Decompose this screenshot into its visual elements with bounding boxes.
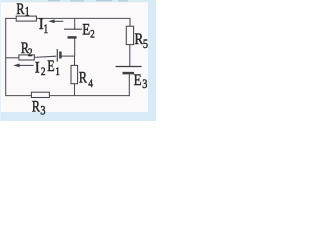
wire bottom: left corner to R3 <box>6 95 32 97</box>
blue margin bottom <box>0 112 156 121</box>
wire middle row: left wire to R2 <box>6 57 19 59</box>
wire middle branch: R4 to bottom wire <box>74 84 76 96</box>
current arrow I2 <box>13 64 33 68</box>
resistor R2 <box>19 55 34 60</box>
battery E1 <box>57 49 60 62</box>
wire right: E3 to bottom corner <box>128 74 130 96</box>
svg-text:1: 1 <box>55 66 60 78</box>
svg-text:1: 1 <box>25 5 30 18</box>
svg-text:I: I <box>35 60 40 76</box>
resistor R3 <box>31 92 49 97</box>
svg-text:4: 4 <box>88 78 93 90</box>
wire middle branch: E2 to node A <box>74 38 76 56</box>
blue margin right <box>148 0 156 121</box>
resistor R1 <box>16 16 36 21</box>
wire right: top corner down to R5 <box>129 18 131 26</box>
label R2 <box>21 40 33 59</box>
svg-text:E: E <box>82 21 90 38</box>
wire top: left corner to R1 <box>6 17 17 19</box>
svg-text:1: 1 <box>43 23 48 36</box>
label E3 <box>134 72 148 92</box>
battery E2 <box>64 29 82 37</box>
label R4 <box>79 69 94 90</box>
stray print marks top edge <box>48 0 128 2</box>
wire right: R5 to E3 <box>129 45 131 67</box>
svg-text:2: 2 <box>41 66 46 78</box>
wire bottom: R3 to bottom-right corner <box>49 95 129 97</box>
label R3 <box>32 98 46 118</box>
label R1 <box>16 1 29 19</box>
battery E3 <box>116 67 142 74</box>
wire left vertical <box>5 18 7 96</box>
blue margin top <box>0 0 156 2</box>
label I2 <box>35 60 46 78</box>
svg-text:3: 3 <box>40 103 45 117</box>
label R5 <box>135 31 149 51</box>
label E1 <box>47 58 60 78</box>
svg-text:2: 2 <box>28 47 33 59</box>
svg-text:3: 3 <box>142 77 147 91</box>
svg-text:R: R <box>79 69 88 86</box>
wire middle row: E1 to node A <box>61 55 75 57</box>
resistor R5 <box>126 26 133 44</box>
svg-text:E: E <box>134 72 142 89</box>
current arrow I1 <box>48 19 63 23</box>
label I1 <box>39 17 49 36</box>
svg-text:E: E <box>47 58 54 75</box>
page background <box>0 0 156 121</box>
label E2 <box>82 21 94 40</box>
wire middle branch: node A down to R4 <box>74 56 76 65</box>
resistor R4 <box>71 65 78 83</box>
svg-text:5: 5 <box>143 37 148 51</box>
wire top: R1 to top-right corner <box>36 17 130 19</box>
svg-text:2: 2 <box>90 28 94 40</box>
wire middle branch: top wire down to E2 <box>74 18 76 29</box>
svg-text:R: R <box>32 98 41 115</box>
wire middle row: R2 to E1 <box>34 56 56 57</box>
